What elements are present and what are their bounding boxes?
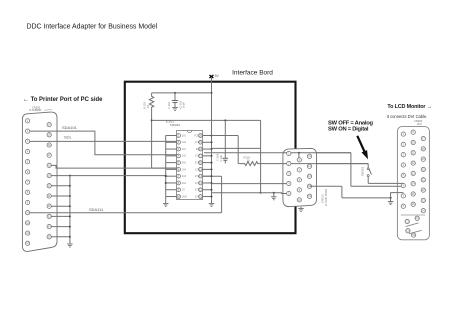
svg-text:1Y1: 1Y1 [195,142,200,144]
svg-text:2Y4: 2Y4 [195,196,200,198]
wire IC pin3R to pull-up net [212,147,261,149]
svg-text:10: 10 [247,158,250,162]
svg-text:SW OFF = Analog: SW OFF = Analog [328,121,374,127]
svg-text:2Y3: 2Y3 [195,190,200,192]
+5V supply symbol [209,75,213,78]
ground of CN202 bus [67,244,73,247]
wire SDA111 from CN202 pin 10 looping under IC [29,176,222,213]
capacitor C102 [174,93,176,100]
svg-text:1K: 1K [146,105,150,108]
svg-text:DVI: DVI [417,122,422,126]
svg-text:2A4: 2A4 [182,182,187,185]
wire CN103 bottom ground [300,207,302,208]
svg-text:2A1: 2A1 [182,148,187,151]
wire stub analog to DVI [397,185,403,187]
IC101 pins right [199,134,203,138]
CN103 pins column3 [307,154,311,158]
wire pull-up net above IC [151,119,153,121]
IC101 body [177,130,203,199]
wire +5V lead [211,78,213,93]
CN203 pins column3 [421,136,425,140]
wire SDA101 from CN202 pin 2 [29,131,177,155]
IC101 pins left [177,134,181,138]
ground bus of CN202 [69,176,71,244]
svg-text:1A2: 1A2 [182,141,187,144]
ground at IC left rail [163,203,169,206]
svg-text:It connects DVI Cable.: It connects DVI Cable. [387,114,428,119]
wire CN202 pin 17 to IC pin [49,165,177,168]
svg-text:DDC Interface Adapter for Busi: DDC Interface Adapter for Business Model [27,24,158,31]
svg-text:SCL: SCL [64,135,73,140]
CN103 pins column2 [297,158,301,162]
ground tap near CN103 [271,197,277,200]
CN203 pins column2 [411,130,415,134]
ground of C102 [172,107,178,110]
arrow to switch [357,136,365,153]
resistor R103 [238,162,368,166]
wire CN202 pin 18 to IC left rail [49,175,166,177]
ground at IC right rail [209,203,215,206]
wire analog branch to DVI [350,153,403,187]
svg-text:10uF: 10uF [182,102,186,108]
svg-text:D-SUB25P: D-SUB25P [30,109,42,112]
svg-text:D-SUB 15PIN: D-SUB 15PIN [324,189,328,206]
svg-text:1Y4: 1Y4 [195,183,200,185]
CN202 pins column 2 (14-25) [47,122,51,126]
CN203 analog section separator [401,214,425,216]
resistor R102 [149,93,153,110]
wire R102 to IC pin [152,110,177,168]
svg-text:2Y2: 2Y2 [195,176,200,178]
svg-text:0.1uF: 0.1uF [219,154,223,161]
wire stub to DVI pin row5 [397,182,403,184]
svg-text:SDA101: SDA101 [62,125,78,130]
Interface Bord box [125,82,296,234]
wire switch to DVI pin [368,177,403,184]
wire top rail [152,92,212,94]
wire CN103 to DVI pin with ground [310,186,404,198]
connector CN202 D-SUB25P body [22,112,57,251]
CN203 analog section pins [405,219,409,223]
wire IC pin1R to R103 [212,136,239,164]
svg-text:2A3: 2A3 [182,175,187,178]
wire R103 across CN103 [283,163,368,165]
svg-text:C-102: C-102 [167,101,171,109]
wire stubs inside CN103 [283,183,287,185]
svg-text:1A4: 1A4 [182,168,187,171]
svg-text:VCC: VCC [194,135,199,137]
svg-text:74F244: 74F244 [170,123,181,127]
slash marks in analog section [406,223,419,227]
wire across CN103 [283,152,351,154]
wire SCL from CN202 pin 3 [29,140,177,142]
wire IC to CN103 pin5 with ground tap [212,192,287,195]
svg-text:GND: GND [182,196,187,198]
svg-text:1Y3: 1Y3 [195,169,200,171]
svg-text:5V: 5V [215,74,220,78]
svg-text:← To Printer Port of PC side: ← To Printer Port of PC side [23,97,103,103]
connector CN203 DVI body [397,127,429,240]
wire left rail of IC [165,136,167,200]
svg-text:2Y1: 2Y1 [195,163,200,165]
CN203 pins column1 [401,132,405,136]
ground below CN103 [298,208,304,211]
svg-text:To LCD Monitor →: To LCD Monitor → [387,104,432,110]
svg-text:2G: 2G [196,149,199,151]
wire SDA long to analog branch [204,152,351,154]
svg-text:SDA111: SDA111 [89,207,104,212]
svg-text:1Y2: 1Y2 [195,156,200,158]
switch SW101 [367,164,370,168]
svg-text:1A1: 1A1 [182,134,187,137]
capacitor C104 [224,119,226,121]
svg-text:2A2: 2A2 [182,162,187,165]
connector CN103 D-SUB15 body [283,148,317,206]
wire +5V right rail of IC [211,93,213,200]
CN202 pins column 1 (1-13) [25,119,29,123]
CN103 pins column1 [287,151,291,155]
svg-text:1G: 1G [182,190,185,192]
svg-text:SW ON = Digital: SW ON = Digital [328,127,369,133]
ground near DVI [388,202,394,205]
wire IC to CN103 pin4 [212,183,287,185]
svg-text:Interface Bord: Interface Bord [232,70,273,77]
svg-text:SW101: SW101 [361,166,365,176]
wire stub to DVI pin row6 [397,192,403,194]
svg-text:1A3: 1A3 [182,155,187,158]
